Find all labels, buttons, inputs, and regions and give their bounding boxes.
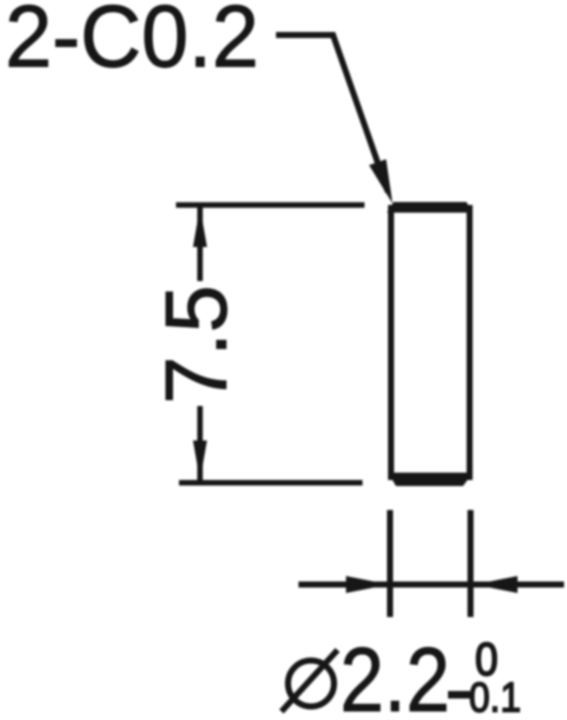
dimension line (diameter dim) <box>299 582 565 588</box>
diameter symbol slash <box>282 650 338 712</box>
part: left silhouette edge <box>388 205 394 480</box>
extension line (bottom) for 7.5 dimension <box>179 480 363 486</box>
part: cylinder side view - top end face with 2 chamfered corners <box>387 202 473 213</box>
tolerance minus sign <box>448 691 470 699</box>
dimension line 7.5 upper segment <box>197 207 203 281</box>
leader arrowhead <box>369 159 392 203</box>
svg-text:7.5: 7.5 <box>148 285 245 404</box>
arrowhead up (7.5 dim) <box>193 207 207 247</box>
arrowhead pointing right (diameter dim) <box>346 576 389 593</box>
extension line right (diameter dim) <box>468 510 474 617</box>
dimension line 7.5 lower segment <box>197 406 203 481</box>
leader line from note to part top-left chamfer <box>276 35 388 192</box>
extension line (top) for 7.5 dimension <box>176 202 365 208</box>
svg-text:2-C0.2: 2-C0.2 <box>5 0 259 86</box>
svg-text:0: 0 <box>475 634 498 686</box>
part: bottom end face with 2 chamfered corners <box>388 473 473 486</box>
arrowhead down (7.5 dim) <box>193 441 207 481</box>
diameter symbol circle <box>288 661 334 707</box>
part: right silhouette edge <box>467 205 473 480</box>
extension line left (diameter dim) <box>387 510 393 617</box>
arrowhead pointing left (diameter dim) <box>475 576 518 593</box>
svg-text:2.2: 2.2 <box>340 630 450 720</box>
